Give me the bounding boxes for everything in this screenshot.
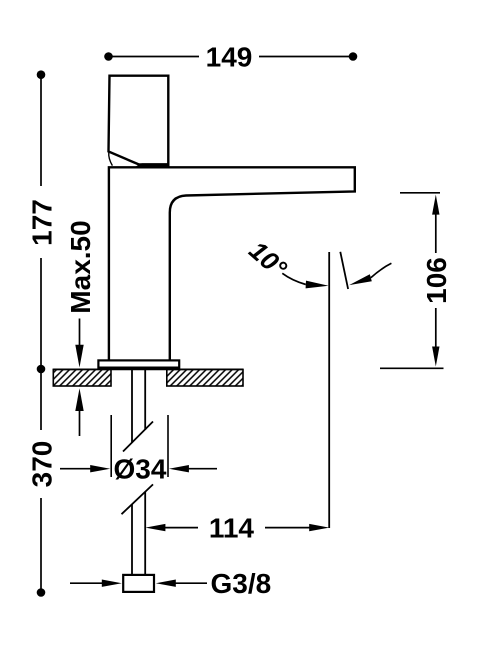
G3/8 fitting [123, 575, 154, 592]
supply pipe upper section [131, 368, 133, 443]
dimension 177 line [37, 70, 46, 79]
dimension Max.50 lower line [79, 409, 81, 436]
dimension 149 line [109, 56, 200, 58]
base flange [98, 360, 179, 367]
dimension 106 line [435, 212, 437, 253]
pipe break slash upper [123, 422, 153, 452]
countertop top line [53, 368, 243, 370]
svg-text:G3/8: G3/8 [211, 568, 272, 599]
dimension diameter 34 left arrow [60, 468, 92, 470]
water stream vertical reference line [328, 252, 330, 528]
dimension diameter 34 right arrow [169, 465, 189, 472]
svg-text:106: 106 [421, 257, 452, 304]
10 degree left curved leader arrow [282, 273, 306, 284]
dimension 106 bottom extension line [380, 367, 444, 369]
dimension 106 up arrow [432, 195, 439, 215]
svg-text:Max.50: Max.50 [65, 220, 96, 313]
faucet body and spout outline [109, 167, 355, 359]
dimension Max.50 up arrow [75, 388, 83, 411]
10 degree right curved leader arrow [371, 263, 392, 278]
faucet handle [109, 76, 169, 165]
dimension G3/8 right arrow [156, 580, 176, 587]
dimension 114 right arrow [265, 527, 311, 529]
svg-text:177: 177 [27, 199, 58, 246]
pipe break slash lower [122, 484, 154, 514]
svg-text:114: 114 [209, 513, 255, 544]
water stream 10 degree slanted line [340, 252, 348, 289]
svg-text:370: 370 [27, 441, 58, 488]
dimension 114 left arrow [145, 524, 165, 531]
countertop right hatched section [167, 369, 243, 386]
dimension diameter 34 right extension line [167, 415, 169, 477]
dimension Max.50 down arrow [75, 345, 83, 368]
lever underside edge [109, 153, 113, 166]
svg-text:149: 149 [206, 42, 253, 73]
dimension Max.50 upper line [79, 319, 81, 348]
handle bottom thick bar [134, 163, 170, 167]
dimension 106 down arrow [432, 347, 439, 367]
dimension 149 end dots [104, 52, 113, 61]
dimension G3/8 left arrow [70, 582, 103, 584]
dimension 106 top extension line [400, 192, 440, 194]
countertop left hatched section [53, 369, 111, 386]
dimension diameter 34 left extension line [110, 415, 112, 477]
svg-text:Ø34: Ø34 [114, 454, 167, 485]
supply pipe lower section [131, 505, 133, 576]
dimension 370 line [37, 365, 46, 374]
